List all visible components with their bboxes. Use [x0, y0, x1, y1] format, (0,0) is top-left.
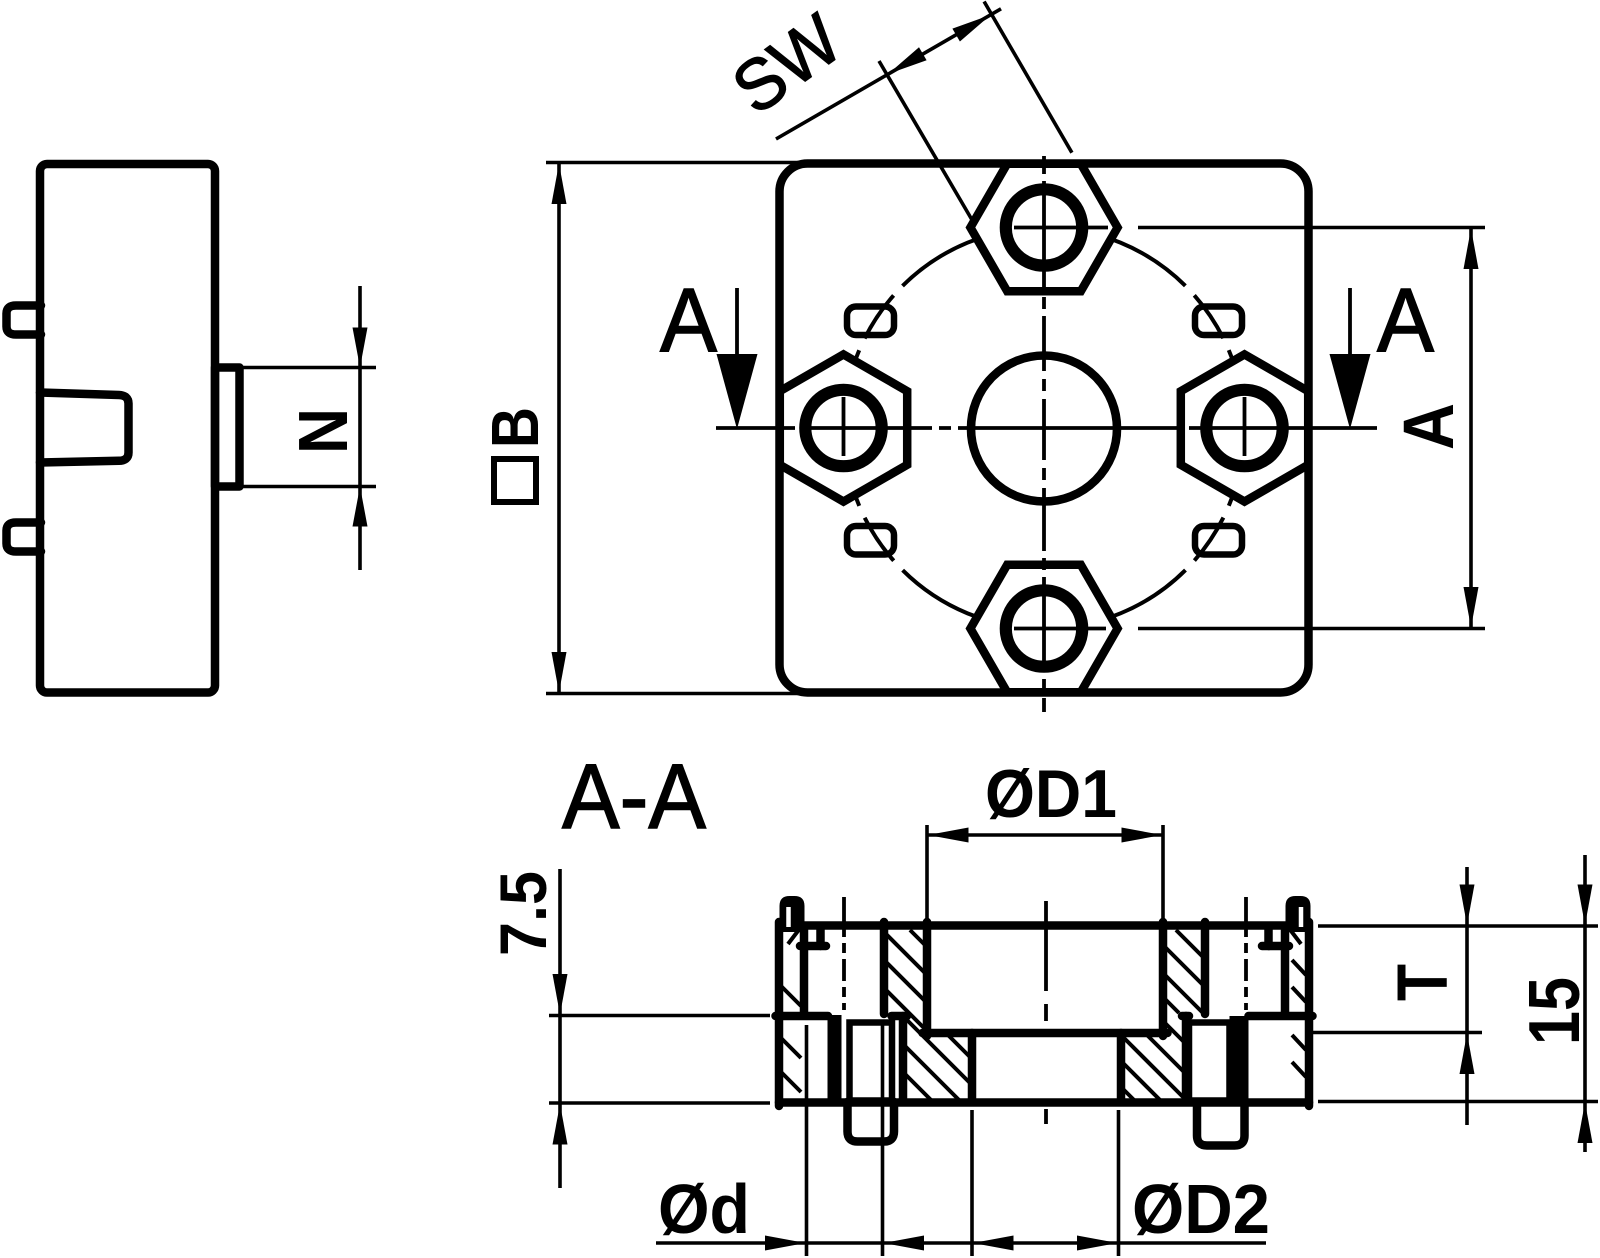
- counterbore right wall: [1159, 922, 1168, 1036]
- N arrow top (points down): [353, 328, 368, 368]
- svg-text:T: T: [1384, 964, 1463, 1001]
- left lip: [782, 898, 803, 930]
- D2 arrow right (points right): [1077, 1236, 1118, 1251]
- right bottom tab: [1197, 1102, 1245, 1146]
- right sleeve box: [1189, 1023, 1230, 1101]
- left black band: [828, 1015, 842, 1102]
- side view top snap tab: [7, 306, 42, 335]
- hex nut right: [1181, 354, 1308, 501]
- left ledge outer: [776, 1012, 829, 1021]
- hex nut bottom: [970, 565, 1117, 692]
- T arrow upper (points down): [1460, 885, 1475, 926]
- T dimension line: [1465, 867, 1469, 1125]
- D1 dimension line: [927, 833, 1163, 837]
- central bore circle: [971, 356, 1117, 502]
- nut bottom center mark: [1014, 627, 1106, 631]
- section centerline below: [1044, 1109, 1048, 1124]
- section vertical centerline: [1044, 901, 1048, 1021]
- 7.5 extension top: [549, 1014, 770, 1018]
- section marker right: line: [1348, 288, 1352, 356]
- D2 arrow left (points left): [973, 1236, 1014, 1251]
- hatch left lower zone: [948, 1035, 970, 1057]
- SW arrow upper-right: [952, 15, 990, 42]
- nut circle top: [1006, 189, 1082, 265]
- nut circle bottom: [1006, 590, 1082, 666]
- left step wall: [899, 1016, 908, 1102]
- svg-text:ØD1: ØD1: [985, 756, 1117, 832]
- B extension line bottom: [546, 692, 803, 696]
- label square-symbol of B: [494, 459, 536, 502]
- bottom dimension line: [656, 1241, 1266, 1245]
- D1 extension left: [925, 825, 929, 921]
- nut top center mark: [1014, 226, 1108, 230]
- hex nut left: [780, 354, 907, 501]
- svg-text:7.5: 7.5: [486, 871, 560, 956]
- N arrow bottom (points up): [353, 487, 368, 527]
- left bottom tab: [848, 1102, 895, 1142]
- SW dimension line: [776, 9, 1001, 139]
- svg-text:Ød: Ød: [658, 1170, 750, 1248]
- B extension line top: [546, 161, 803, 165]
- D2 hole right wall: [1117, 1033, 1126, 1102]
- svg-text:15: 15: [1515, 977, 1595, 1045]
- left hole wall: [800, 928, 809, 1014]
- bolt circle arc left-bottom (dashed): [844, 428, 1045, 629]
- d extension left: [805, 1025, 809, 1256]
- right lip slit: [1299, 907, 1304, 927]
- SW arrow lower-left: [888, 47, 926, 74]
- right chamfer line: [1288, 927, 1301, 944]
- right hole wall: [1281, 928, 1290, 1014]
- A dimension line: [1469, 228, 1473, 629]
- slot top-left: [847, 307, 894, 336]
- A arrow top: [1464, 229, 1479, 270]
- nut circle left: [805, 390, 881, 466]
- hatch right outer band: [1292, 960, 1306, 975]
- plate outline: [780, 164, 1309, 693]
- left lip step horiz: [800, 942, 826, 951]
- section marker left: arrow: [717, 354, 758, 429]
- side view bottom snap tab: [7, 523, 42, 552]
- svg-text:A: A: [1390, 403, 1469, 450]
- 15 arrow lower (points up): [1578, 1103, 1593, 1144]
- section top face: [801, 921, 1291, 930]
- right mid wall: [1201, 922, 1210, 1014]
- section right outer wall: [1305, 922, 1314, 1106]
- side view notch: [40, 393, 129, 463]
- hatch right upper band: [1165, 999, 1179, 1013]
- right ledge inner: [1182, 1012, 1189, 1021]
- svg-text:A: A: [660, 271, 717, 371]
- svg-text:ØD2: ØD2: [1132, 1170, 1270, 1248]
- d arrow right (points left): [884, 1236, 925, 1251]
- SW extension line 1: [879, 61, 972, 219]
- left mid wall: [880, 922, 889, 1014]
- hatch right lower zone: [1123, 1089, 1135, 1101]
- 7.5 extension bottom: [549, 1101, 770, 1105]
- right step wall: [1182, 1016, 1191, 1102]
- N extension line top: [243, 366, 376, 370]
- right hole axis below: [1244, 1107, 1248, 1122]
- right hole axis: [1244, 897, 1248, 1010]
- bolt circle arc bottom-right (dashed): [1044, 428, 1245, 629]
- D1 extension right: [1161, 825, 1165, 921]
- B arrow top (points up): [552, 164, 567, 205]
- left lip slit: [786, 907, 791, 927]
- bolt circle arc right-top (dashed): [1044, 228, 1245, 429]
- D1 arrow left: [928, 828, 969, 843]
- hex nut top: [970, 164, 1117, 291]
- 7.5 arrow upper (points down): [553, 974, 568, 1015]
- 7.5 dimension line: [558, 869, 562, 1188]
- left lip step vert: [816, 929, 825, 946]
- D1 arrow right: [1122, 828, 1163, 843]
- counterbore floor: [923, 1029, 1168, 1038]
- D2 extension left: [970, 1110, 974, 1256]
- B dimension line: [557, 163, 561, 694]
- svg-text:B: B: [478, 407, 553, 448]
- nut circle right: [1206, 390, 1282, 466]
- svg-text:A: A: [1377, 271, 1434, 371]
- 15 dimension line: [1583, 855, 1587, 1152]
- section marker left: line: [735, 288, 739, 356]
- left sleeve box: [850, 1023, 893, 1101]
- right black band: [1230, 1016, 1249, 1102]
- top face extension right: [1318, 924, 1598, 928]
- 15 bottom extension: [1318, 1100, 1598, 1104]
- B arrow bottom (points down): [552, 652, 567, 693]
- right lip: [1288, 898, 1309, 930]
- section marker right: arrow: [1330, 354, 1371, 429]
- svg-text:N: N: [284, 408, 362, 454]
- N dimension line: [358, 286, 362, 570]
- d arrow left (points right): [765, 1236, 806, 1251]
- nut right center mark: [1243, 397, 1247, 456]
- svg-text:A-A: A-A: [562, 746, 707, 848]
- left ledge inner: [892, 1012, 908, 1021]
- bolt circle arc top-left (dashed): [844, 228, 1045, 429]
- vertical centerline: [1042, 156, 1046, 712]
- left hole axis: [842, 897, 846, 1010]
- section left outer wall: [775, 922, 784, 1106]
- nut left center mark: [842, 397, 846, 456]
- 15 arrow upper (points down): [1578, 885, 1593, 926]
- counterbore left wall: [923, 922, 932, 1036]
- slot bottom-left: [847, 526, 894, 555]
- T extension bottom: [1313, 1031, 1482, 1035]
- left chamfer line: [788, 927, 801, 944]
- 7.5 arrow lower (points up): [553, 1104, 568, 1145]
- section bottom face: [779, 1098, 1309, 1107]
- T arrow lower (points up): [1460, 1034, 1475, 1075]
- N extension line bottom: [243, 485, 376, 489]
- side view boss: [215, 368, 240, 487]
- A dim extension line top: [1138, 226, 1485, 230]
- D2 extension right: [1117, 1110, 1121, 1256]
- hatch left outer band: [780, 985, 801, 1006]
- slot bottom-right: [1195, 526, 1242, 555]
- SW extension line 2: [984, 2, 1072, 153]
- A dim extension line bottom: [1138, 627, 1485, 631]
- right lip step vert: [1264, 929, 1273, 946]
- side view body: [40, 164, 215, 693]
- hatch left upper band: [910, 930, 925, 945]
- right lip step horiz: [1262, 942, 1289, 951]
- d extension right: [881, 1025, 885, 1256]
- right ledge outer: [1249, 1012, 1313, 1021]
- slot top-right: [1195, 307, 1242, 336]
- A arrow bottom: [1464, 587, 1479, 628]
- D2 hole left wall: [968, 1033, 977, 1102]
- horizontal centerline: [716, 426, 1377, 430]
